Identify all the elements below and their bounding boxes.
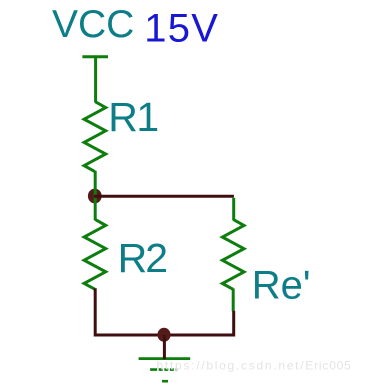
wire R1 to R2 through node A	[94, 171, 97, 221]
pin Re' bottom	[232, 289, 235, 312]
svg-text:https://blog.csdn.net/: https://blog.csdn.net/	[157, 359, 306, 373]
ground top line	[139, 357, 191, 360]
wire node B to ground	[163, 335, 166, 359]
svg-text:15V: 15V	[144, 7, 219, 51]
wire R2 bottom to Re' bottom (U shape)	[95, 288, 234, 335]
resistor Re'	[222, 220, 244, 290]
svg-text:R1: R1	[108, 94, 157, 140]
wire VCC pin to R1	[94, 55, 97, 102]
svg-text:R2: R2	[118, 235, 167, 281]
wire node A to Re' top	[94, 195, 234, 198]
junction node B	[157, 328, 170, 342]
svg-text:Re': Re'	[252, 264, 311, 308]
ground level-3 line	[162, 380, 168, 383]
svg-text:VCC: VCC	[52, 3, 134, 46]
resistor R2	[84, 220, 106, 290]
svg-text:Eric005: Eric005	[305, 359, 351, 373]
power symbol VCC (T bar)	[82, 55, 108, 58]
ground level-2 line	[150, 368, 177, 371]
resistor R1	[84, 102, 106, 172]
junction node A	[88, 189, 102, 204]
pin Re' top	[232, 198, 235, 221]
